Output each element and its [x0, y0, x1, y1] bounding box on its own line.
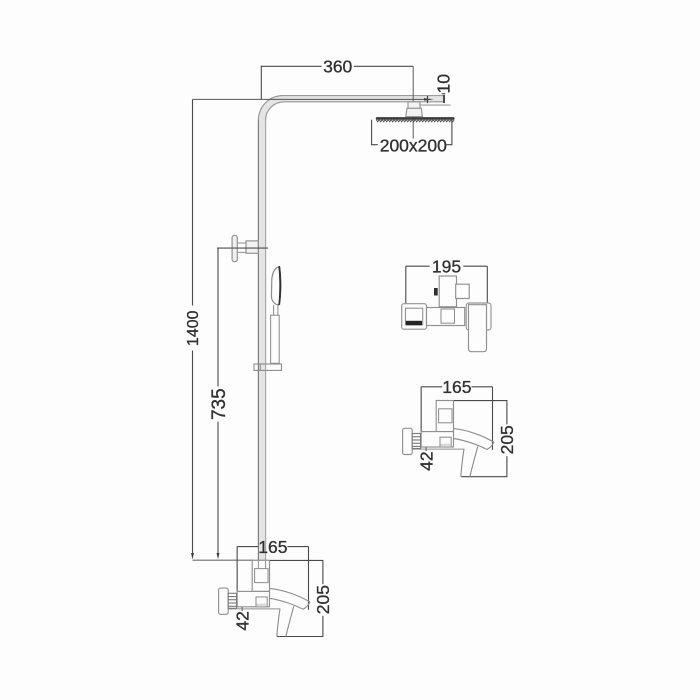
svg-text:1400: 1400	[185, 310, 202, 346]
top view spout block	[439, 276, 456, 307]
shower head stem lower	[406, 108, 423, 116]
svg-text:195: 195	[432, 256, 461, 276]
dim 1400 dimension line	[192, 99, 194, 556]
top view body square	[441, 309, 455, 323]
dim 200x200 bracket	[372, 120, 452, 145]
riser into body	[258, 560, 265, 568]
svg-text:735: 735	[209, 388, 230, 420]
knob flange	[246, 241, 258, 253]
knob stem	[237, 243, 246, 252]
dim 735 arrow	[217, 553, 220, 559]
dim 195 extension lines	[406, 266, 488, 303]
pipe fill	[258, 96, 443, 568]
svg-text:10: 10	[434, 74, 454, 94]
shower head plate	[376, 117, 455, 120]
pipe bend inner	[266, 102, 284, 120]
top view body bar	[427, 308, 465, 326]
dim 735 extension line	[217, 247, 268, 249]
hand shower head outline	[271, 267, 279, 305]
head axis line	[412, 66, 414, 138]
top view dark hatch bar	[406, 321, 422, 326]
wall line	[193, 559, 254, 561]
arm joint tick	[427, 96, 429, 103]
dim 195 dimension line	[406, 265, 488, 267]
top view small dark stub	[434, 288, 438, 296]
riser pole right edge	[265, 120, 267, 568]
hand shower spray face	[279, 266, 281, 305]
shower holder bracket	[254, 364, 282, 370]
hand shower neck	[274, 305, 278, 315]
shower head nozzles sawtooth	[376, 120, 454, 122]
arm end cap	[443, 95, 445, 103]
hand shower handle	[271, 315, 280, 363]
pipe bend outer	[258, 96, 283, 121]
dim 10 corner	[442, 93, 446, 95]
holder divider	[259, 364, 261, 370]
arm centre reference line	[193, 98, 426, 100]
svg-text:360: 360	[323, 56, 352, 76]
dim 360 dimension line	[261, 66, 413, 99]
line under arm end	[419, 104, 450, 106]
top view side port	[456, 284, 470, 298]
knob handle	[232, 235, 237, 261]
shower arm bottom edge	[284, 101, 444, 103]
top view handle lever	[469, 305, 487, 352]
shower head stem upper	[408, 102, 420, 109]
dim 1400 arrow	[191, 553, 194, 559]
svg-text:200x200: 200x200	[380, 136, 447, 156]
shower arm top edge	[283, 95, 444, 97]
top view left escutcheon	[402, 304, 427, 330]
top view left inner plate	[406, 308, 423, 325]
riser pole left edge	[257, 120, 259, 568]
centre line arrow	[424, 98, 434, 101]
top view right escutcheon	[466, 303, 491, 330]
dim 735 dimension line	[217, 248, 219, 556]
